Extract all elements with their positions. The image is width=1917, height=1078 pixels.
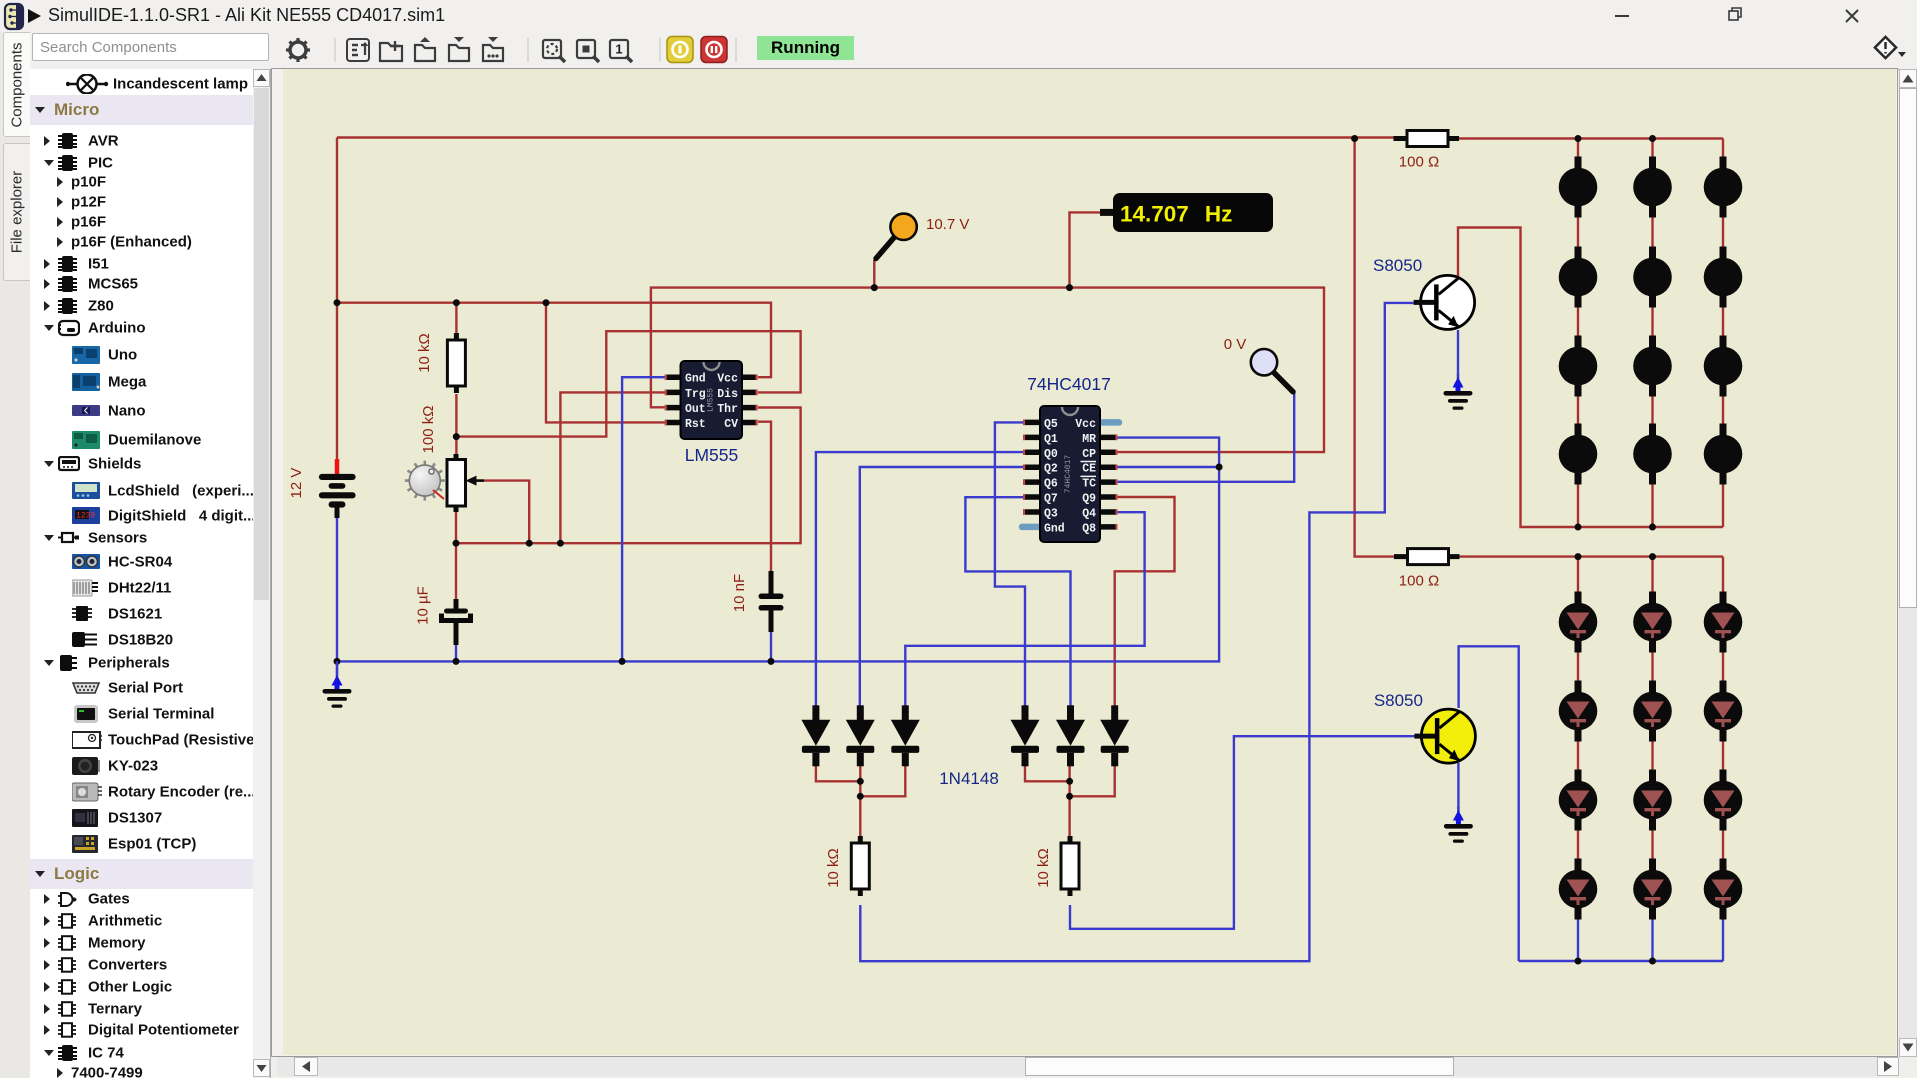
- node diode-d: [857, 793, 864, 800]
- wire ground bus: [337, 438, 1219, 662]
- diode D6 1N4148: [1100, 705, 1129, 766]
- diode D5 1N4148: [1056, 705, 1085, 766]
- resistor R5 10k: [1061, 836, 1079, 896]
- wire LED col seg: [1651, 307, 1653, 337]
- LED L9 (top matrix, off): [1704, 336, 1743, 397]
- LED L2 (top matrix, off): [1633, 157, 1672, 218]
- svg-text:CV: CV: [724, 418, 738, 431]
- svg-text:Q9: Q9: [1082, 493, 1096, 506]
- wire LED col seg: [1577, 652, 1579, 682]
- power button: [667, 37, 693, 63]
- node diode-c: [857, 778, 864, 785]
- svg-text:Q1: Q1: [1044, 433, 1058, 446]
- wire D3 cathode: [860, 765, 905, 796]
- node gnd-battery: [334, 658, 341, 665]
- LED L11 (top matrix, off): [1633, 424, 1672, 485]
- LED L21 (bottom matrix): [1704, 770, 1743, 831]
- wire R2 to LED col1: [1459, 137, 1723, 139]
- wire Q1 emitter: [1457, 330, 1459, 375]
- transistor Q2 S8050: [1414, 709, 1475, 763]
- canvas h scrollbar: [277, 1057, 1899, 1076]
- zoom one icon: [610, 40, 632, 62]
- wire Q9 to D6: [1115, 497, 1175, 706]
- wire LED col seg: [1651, 830, 1653, 860]
- svg-text:Trg: Trg: [685, 388, 706, 401]
- potentiometer P1 100k: [447, 454, 484, 512]
- svg-text:10 kΩ: 10 kΩ: [1035, 848, 1052, 888]
- potentiometer P1 knob: [405, 461, 445, 501]
- wire LED col seg: [1577, 830, 1579, 860]
- wire top matrix cathodes: [1578, 484, 1723, 527]
- node gnd-C2: [768, 658, 775, 665]
- svg-text:Gnd: Gnd: [685, 373, 706, 386]
- node out-probe1: [871, 284, 878, 291]
- svg-text:CE: CE: [1082, 463, 1096, 476]
- wire R5 to Q2 base: [1070, 736, 1415, 929]
- svg-text:S8050: S8050: [1373, 256, 1422, 275]
- save-as folder icon: [483, 37, 503, 61]
- svg-text:Out: Out: [685, 403, 706, 416]
- wire bus to R3: [1355, 139, 1394, 557]
- wire Q2 to D2: [860, 467, 1023, 706]
- node led-t2: [1649, 135, 1656, 142]
- wire LED col seg: [1577, 741, 1579, 771]
- wire D2 cathode to R4: [859, 765, 861, 837]
- toolbar: [0, 32, 1917, 70]
- zoom all icon: [577, 40, 599, 62]
- svg-text:Q5: Q5: [1044, 418, 1058, 431]
- LED L10 (top matrix, off): [1559, 424, 1598, 485]
- wire LED col seg: [1651, 217, 1653, 247]
- wire CE tie: [1118, 466, 1220, 468]
- left vertical tabs: [0, 32, 30, 1078]
- svg-text:10 kΩ: 10 kΩ: [825, 848, 842, 888]
- wire D5 cathode to R5: [1068, 765, 1070, 837]
- op-amp U1 LM555 timer IC: [665, 361, 758, 439]
- LED L16 (bottom matrix): [1559, 681, 1598, 742]
- svg-text:10 kΩ: 10 kΩ: [416, 333, 433, 373]
- frequency meter 14.707 Hz: [1100, 193, 1273, 232]
- node bus-battery: [334, 299, 341, 306]
- node diode-a: [1066, 778, 1073, 785]
- LED L20 (bottom matrix): [1633, 770, 1672, 831]
- wire R1 top lead: [455, 303, 457, 335]
- wire Q7 to D5: [965, 497, 1070, 706]
- svg-text:100 kΩ: 100 kΩ: [420, 406, 437, 454]
- capacitor C1 10uF: [442, 599, 471, 645]
- node R1-pot: [453, 433, 460, 440]
- svg-text:10 µF: 10 µF: [415, 586, 432, 625]
- probe PR2 0 V: [1251, 349, 1293, 392]
- wire LED col seg: [1722, 741, 1724, 771]
- wire bottom matrix cathodes: [1578, 919, 1723, 961]
- title bar: [0, 0, 1917, 32]
- LED L19 (bottom matrix): [1559, 770, 1598, 831]
- open folder (up arrow) icon: [415, 37, 435, 61]
- svg-text:Q0: Q0: [1044, 448, 1058, 461]
- probe PR1 10.7 V: [876, 214, 917, 259]
- new folder icon: [380, 41, 402, 61]
- wire Rst net: [546, 303, 665, 423]
- diode D2 1N4148: [846, 705, 875, 766]
- node led-b2: [1649, 524, 1656, 531]
- wire Dis net: [456, 331, 800, 436]
- svg-text:Vcc: Vcc: [1075, 418, 1096, 431]
- LED L6 (top matrix, off): [1704, 247, 1743, 308]
- wire LED col seg: [1722, 830, 1724, 860]
- wire Vcc bus to LM555: [337, 303, 771, 378]
- wire CV to C2: [758, 422, 771, 573]
- svg-text:LM555: LM555: [707, 388, 716, 412]
- wire Q2 emitter: [1457, 763, 1459, 808]
- node diode-b: [1066, 793, 1073, 800]
- wire Trg net: [560, 392, 664, 543]
- LED L17 (bottom matrix): [1633, 681, 1672, 742]
- resistor R1 10k: [447, 333, 465, 393]
- wire LED col seg: [1651, 741, 1653, 771]
- ground GND1 battery: [323, 661, 352, 707]
- wire TC to probe2: [1118, 392, 1295, 481]
- resistor R3 100: [1394, 549, 1460, 565]
- wire Vcc top bus: [337, 136, 1394, 138]
- wire C1 to gnd: [455, 644, 457, 661]
- transistor Q1 S8050: [1414, 275, 1475, 329]
- wire LED col seg: [1577, 307, 1579, 337]
- node led-b1: [1575, 524, 1582, 531]
- wire LED col seg: [1577, 396, 1579, 426]
- LED L23 (bottom matrix): [1633, 859, 1672, 920]
- node bus-Rst: [543, 299, 550, 306]
- LED L3 (top matrix, off): [1704, 157, 1743, 218]
- node gnd-CE: [1216, 464, 1223, 471]
- svg-text:74HC4017: 74HC4017: [1027, 374, 1111, 394]
- LED L22 (bottom matrix): [1559, 859, 1598, 920]
- pause button: [701, 37, 727, 63]
- canvas v scrollbar: [1899, 69, 1917, 1057]
- svg-text:10.7 V: 10.7 V: [926, 216, 969, 233]
- wire D6 cathode: [1070, 765, 1115, 796]
- counter U2 74HC4017 IC: [1022, 406, 1119, 542]
- wire LED col seg: [1722, 396, 1724, 426]
- svg-text:Q4: Q4: [1082, 507, 1096, 520]
- wire D4 cathode: [1025, 765, 1070, 781]
- diode D1 1N4148: [801, 705, 830, 766]
- reload list icon: [347, 39, 369, 61]
- LED L13 (bottom matrix): [1559, 592, 1598, 653]
- wire D1 cathode: [816, 765, 860, 781]
- wire LED col seg: [1722, 217, 1724, 247]
- node thr-pot: [453, 540, 460, 547]
- node led2-b2: [1649, 958, 1656, 965]
- wire LED col seg: [1577, 217, 1579, 247]
- node out-meter: [1066, 284, 1073, 291]
- wire Q0 to D1: [816, 452, 1023, 706]
- svg-text:1N4148: 1N4148: [939, 769, 999, 788]
- svg-text:Vcc: Vcc: [717, 373, 738, 386]
- svg-text:10 nF: 10 nF: [731, 574, 748, 612]
- zoom fit icon: [543, 40, 565, 62]
- node led2-b1: [1575, 958, 1582, 965]
- resistor R2 100: [1394, 131, 1460, 147]
- wire R4 to Q1 base: [860, 303, 1413, 961]
- diode D3 1N4148: [891, 705, 920, 766]
- battery B1 12V: [319, 459, 356, 518]
- wire Q2 collector: [1459, 646, 1519, 961]
- node led2-t1: [1575, 553, 1582, 560]
- wire LED col seg: [1722, 652, 1724, 682]
- LED L14 (bottom matrix): [1633, 592, 1672, 653]
- wire bottom matrix feeds: [1578, 557, 1723, 592]
- wire pot bottom to C1: [455, 511, 457, 601]
- wire R1 bottom to pot: [455, 394, 457, 455]
- svg-text:12 V: 12 V: [288, 468, 305, 499]
- svg-text:LM555: LM555: [685, 445, 739, 465]
- svg-text:Rst: Rst: [685, 418, 706, 431]
- wire Q5 to D4: [995, 422, 1025, 706]
- wire LED col seg: [1651, 396, 1653, 426]
- svg-text:Q6: Q6: [1044, 478, 1058, 491]
- svg-text:14.707Hz: 14.707Hz: [1120, 202, 1232, 227]
- sidebar scrollbar: [253, 69, 270, 1078]
- node led2-t2: [1649, 553, 1656, 560]
- wire bottom matrix line: [1519, 960, 1723, 962]
- wire C2 to gnd: [770, 631, 772, 661]
- wire LED col seg: [1722, 307, 1724, 337]
- LED L4 (top matrix, off): [1559, 247, 1598, 308]
- info icon top right: [1870, 32, 1910, 69]
- wire meter lead: [1070, 212, 1101, 287]
- svg-text:74HC4017: 74HC4017: [1064, 455, 1073, 494]
- svg-text:S8050: S8050: [1374, 691, 1423, 710]
- svg-text:Dis: Dis: [717, 388, 738, 401]
- LED L7 (top matrix, off): [1559, 336, 1598, 397]
- resistor R4 10k: [851, 836, 869, 896]
- svg-text:MR: MR: [1082, 433, 1096, 446]
- svg-text:Q8: Q8: [1082, 522, 1096, 535]
- gear icon: [286, 38, 310, 62]
- ground GND3 Q2 emitter: [1444, 807, 1473, 843]
- LED L5 (top matrix, off): [1633, 247, 1672, 308]
- node led-t1: [1575, 135, 1582, 142]
- svg-text:100 Ω: 100 Ω: [1399, 154, 1439, 171]
- svg-text:Q3: Q3: [1044, 507, 1058, 520]
- wire battery - lead: [336, 517, 338, 661]
- node thr-trg: [557, 540, 564, 547]
- wire top matrix feeds: [1578, 139, 1723, 158]
- svg-text:Thr: Thr: [717, 403, 738, 416]
- wire top matrix bottom line: [1458, 228, 1723, 528]
- wire LM555 Gnd: [622, 377, 665, 661]
- svg-text:Gnd: Gnd: [1044, 522, 1065, 535]
- node top-right: [1351, 135, 1358, 142]
- svg-text:0 V: 0 V: [1224, 336, 1247, 353]
- diode D4 1N4148: [1011, 705, 1040, 766]
- node thr-wiper: [526, 540, 533, 547]
- svg-text:Q2: Q2: [1044, 463, 1058, 476]
- node bus-R1: [453, 299, 460, 306]
- svg-text:100 Ω: 100 Ω: [1399, 573, 1439, 590]
- wire LED col seg: [1651, 652, 1653, 682]
- LED L24 (bottom matrix): [1704, 859, 1743, 920]
- LED L8 (top matrix, off): [1633, 336, 1672, 397]
- wire Out net: [651, 288, 1324, 453]
- svg-text:CP: CP: [1082, 448, 1096, 461]
- node gnd-C1: [453, 658, 460, 665]
- save folder (down arrow) icon: [449, 37, 469, 61]
- wire Thr net: [456, 408, 801, 544]
- LED L18 (bottom matrix): [1704, 681, 1743, 742]
- wire pot wiper: [484, 481, 529, 544]
- ground GND2 Q1 emitter: [1444, 374, 1473, 410]
- node gnd-555: [619, 658, 626, 665]
- capacitor C2 10nF: [759, 571, 784, 632]
- svg-text:TC: TC: [1082, 478, 1096, 491]
- LED L12 (top matrix, off): [1704, 424, 1743, 485]
- wire battery + riser: [336, 138, 338, 460]
- LED L15 (bottom matrix): [1704, 592, 1743, 653]
- wire R3 to bottom matrix: [1459, 555, 1723, 557]
- wire probe1 lead: [873, 260, 875, 288]
- svg-text:Q7: Q7: [1044, 493, 1058, 506]
- wire Q4 to D3: [905, 512, 1144, 706]
- LED L1 (top matrix, off): [1559, 157, 1598, 218]
